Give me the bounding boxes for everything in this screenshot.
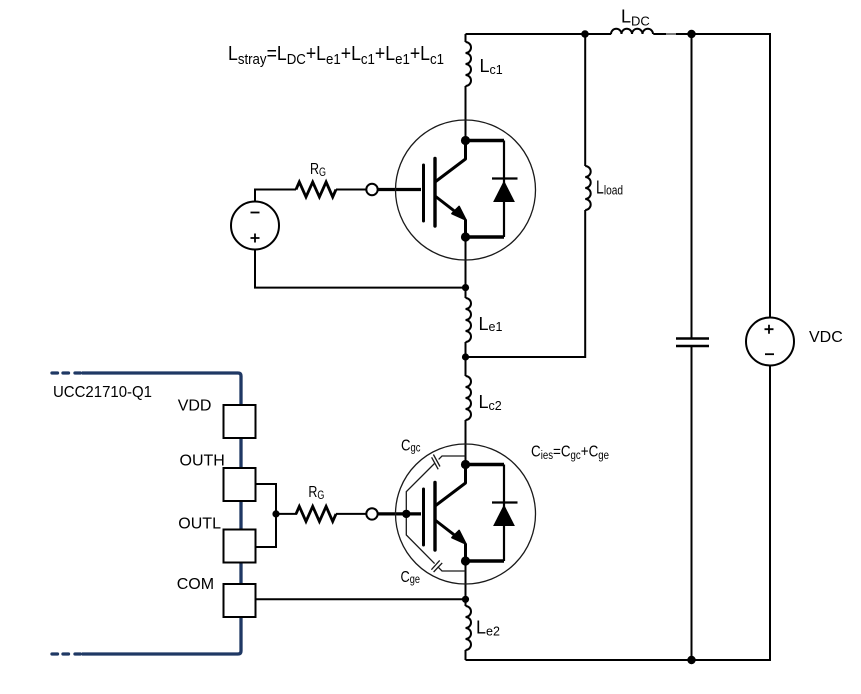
svg-text:VDD: VDD — [178, 398, 212, 415]
svg-text:VDC: VDC — [809, 329, 843, 346]
svg-text:OUTH: OUTH — [180, 453, 225, 470]
svg-text:COM: COM — [177, 576, 214, 593]
svg-text:OUTL: OUTL — [178, 516, 221, 533]
svg-text:UCC21710-Q1: UCC21710-Q1 — [53, 384, 152, 401]
